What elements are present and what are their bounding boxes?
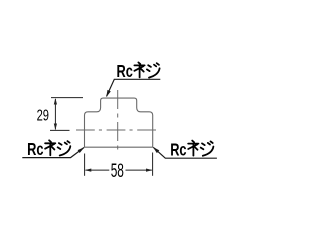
dimension 29 extension line bottom (50, 129, 70, 131)
dimension 29 arrow down (54, 124, 57, 131)
dimension 29 extension line top (51, 97, 83, 99)
vertical centerline (117, 90, 119, 150)
right Rc thread label leader arrow (153, 147, 160, 153)
left Rc thread label leader arrow (78, 147, 85, 153)
svg-text:Rc: Rc (27, 140, 44, 159)
svg-text:58: 58 (111, 160, 124, 182)
top Rc thread label leader line (107, 79, 161, 96)
top Rc thread label leader arrow (106, 90, 111, 97)
dimension 58 extension line right (152, 153, 154, 176)
right Rc thread label leader line (153, 147, 217, 158)
top Rc thread label katakana neji (134, 62, 159, 77)
dimension 58 arrow left (85, 169, 92, 172)
dimension 58 extension line left (84, 154, 86, 176)
svg-text:29: 29 (37, 107, 49, 124)
dimension 58 line right segment (126, 169, 152, 171)
dimension 29 arrow up (54, 98, 57, 105)
svg-text:Rc: Rc (170, 141, 187, 160)
svg-text:Rc: Rc (117, 62, 134, 81)
right Rc thread label katakana neji (188, 141, 213, 156)
tee fitting body outline (85, 98, 153, 147)
dimension 58 arrow right (146, 169, 153, 172)
left Rc thread label leader line (22, 148, 84, 158)
dimension 29 line (54, 99, 56, 130)
dimension 58 line left segment (86, 169, 110, 171)
left Rc thread label katakana neji (45, 140, 70, 155)
horizontal centerline (76, 129, 159, 131)
